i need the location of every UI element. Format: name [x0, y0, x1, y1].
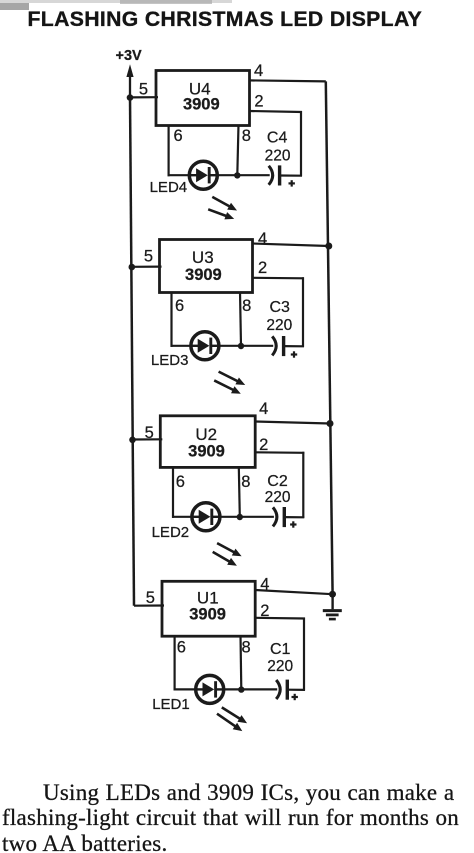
- svg-text:+3V: +3V: [116, 48, 143, 64]
- wire pin 4 U4 to right rail: [250, 80, 326, 81]
- node junction pin 8 / LED1 / C1: [238, 686, 244, 692]
- pin number 5 (U1): [146, 589, 155, 607]
- node junction pin 8 / LED4 / C4: [234, 172, 240, 178]
- LED1 emission arrow 1: [222, 707, 247, 723]
- pin number 6 (U3): [175, 297, 184, 315]
- wire LED row U4 (pin6 to capacitor): [168, 174, 270, 176]
- value label 3909 (U4): [183, 95, 220, 113]
- svg-text:C4: C4: [267, 130, 288, 147]
- wire LED row U2 (pin6 to capacitor): [172, 516, 274, 518]
- wire pin 8 stub U3: [240, 292, 241, 346]
- capacitor C3 symbol (polarized): [272, 336, 283, 356]
- value 220 (C2): [265, 489, 291, 506]
- label LED2: [152, 524, 190, 541]
- label C2: [267, 473, 288, 490]
- svg-text:2: 2: [259, 436, 268, 454]
- caption paragraph: [2, 780, 474, 853]
- plus polarity mark C1: [292, 694, 298, 700]
- svg-text:6: 6: [175, 297, 184, 315]
- pin number 2 (U2): [259, 436, 268, 454]
- LED3 emission arrow 1: [219, 372, 246, 385]
- svg-text:3909: 3909: [185, 266, 222, 284]
- node junction right rail / pin 4 U2: [327, 420, 334, 427]
- wire pin 6 stub U4: [168, 125, 170, 177]
- pin number 2 (U3): [258, 259, 267, 277]
- capacitor C1 symbol (polarized): [276, 680, 287, 700]
- node junction right rail / pin 4 U3: [325, 243, 332, 250]
- ground symbol: [323, 594, 342, 619]
- label U4: [189, 79, 211, 98]
- svg-text:5: 5: [144, 248, 153, 266]
- node junction right rail / pin 4 U1: [329, 591, 336, 598]
- wire capacitor to pin-2 drop U1: [287, 689, 305, 691]
- svg-text:2: 2: [260, 602, 269, 620]
- wire pin 6 stub U2: [172, 466, 174, 518]
- wire capacitor to pin-2 drop U3: [284, 345, 304, 347]
- wire right rail (pin-4 bus): [326, 81, 333, 594]
- wire pin 8 stub U2: [239, 466, 240, 516]
- power +3V arrow: [126, 64, 133, 97]
- LED2 emission arrow 1: [217, 543, 242, 556]
- svg-text:8: 8: [242, 297, 251, 315]
- wire LED row U1 (pin6 to capacitor): [174, 688, 278, 690]
- pin number 2 (U1): [260, 602, 269, 620]
- label U2: [195, 425, 217, 444]
- svg-text:C1: C1: [270, 641, 291, 658]
- wire pin 4 U1 to right rail: [255, 590, 332, 594]
- svg-text:220: 220: [266, 317, 292, 334]
- node junction left rail / pin 5 U2: [129, 437, 136, 444]
- svg-text:U3: U3: [192, 248, 214, 267]
- node junction left rail / pin 5 U4: [127, 94, 134, 101]
- svg-text:4: 4: [260, 576, 269, 594]
- svg-text:2: 2: [254, 92, 263, 110]
- capacitor C2 symbol (polarized): [273, 507, 284, 527]
- node junction pin 8 / LED3 / C3: [238, 343, 244, 349]
- svg-text:4: 4: [254, 62, 263, 80]
- svg-text:5: 5: [139, 80, 148, 98]
- svg-text:220: 220: [265, 489, 291, 506]
- scan smudge top-left corner block: [0, 3, 29, 10]
- svg-text:4: 4: [258, 230, 267, 248]
- pin number 8 (U3): [242, 297, 251, 315]
- svg-text:6: 6: [177, 639, 186, 657]
- capacitor C4 symbol (polarized): [269, 165, 280, 185]
- pin number 6 (U2): [176, 473, 185, 491]
- LED3 emission arrow 2: [214, 380, 241, 393]
- value 220 (C4): [265, 148, 291, 165]
- svg-text:C2: C2: [267, 473, 288, 490]
- svg-text:5: 5: [146, 589, 155, 607]
- pin number 5 (U3): [144, 248, 153, 266]
- wire pin 2 U2: [255, 452, 304, 518]
- value label 3909 (U1): [189, 606, 226, 624]
- wire left supply rail: [130, 97, 134, 606]
- wire pin 8 stub U1: [239, 635, 242, 689]
- wire capacitor to pin-2 drop U2: [284, 516, 304, 518]
- svg-text:2: 2: [258, 259, 267, 277]
- LED1 diode symbol: [196, 675, 224, 703]
- wire pin 2 U1: [255, 618, 305, 691]
- svg-text:8: 8: [241, 473, 250, 491]
- LED4 emission arrow 2: [208, 209, 234, 219]
- svg-text:U1: U1: [197, 588, 219, 607]
- pin number 8 (U2): [241, 473, 250, 491]
- op-IC U4 (LM3909) body: [156, 71, 250, 126]
- title: FLASHING CHRISTMAS LED DISPLAY: [28, 8, 423, 32]
- svg-text:LED4: LED4: [150, 179, 188, 196]
- svg-text:3909: 3909: [183, 95, 220, 113]
- pin number 4 (U2): [259, 400, 268, 418]
- svg-text:5: 5: [145, 424, 154, 442]
- scan smudge top center dark: [120, 0, 212, 4]
- wire pin 5 U4: [130, 96, 158, 98]
- pin number 2 (U4): [254, 92, 263, 110]
- LED1 emission arrow 2: [217, 714, 242, 731]
- wire pin 6 stub U1: [174, 635, 176, 690]
- svg-text:6: 6: [174, 127, 183, 145]
- label U3: [192, 248, 214, 267]
- label C4: [267, 130, 288, 147]
- wire LED row U3 (pin6 to capacitor): [171, 345, 274, 347]
- label U1: [197, 588, 219, 607]
- wire pin 6 stub U3: [170, 292, 172, 347]
- svg-text:8: 8: [242, 639, 251, 657]
- LED2 diode symbol: [192, 503, 220, 531]
- pin number 4 (U3): [258, 230, 267, 248]
- pin number 4 (U1): [260, 576, 269, 594]
- svg-text:8: 8: [242, 127, 251, 145]
- plus polarity mark C2: [290, 521, 296, 527]
- wire pin 5 U1: [134, 604, 164, 606]
- node junction left rail / pin 5 U3: [129, 264, 136, 271]
- value 220 (C1): [267, 658, 293, 675]
- wire pin 4 U3 to right rail: [253, 244, 329, 247]
- wire pin 5 U2: [133, 438, 163, 440]
- svg-text:3909: 3909: [189, 606, 226, 624]
- wire pin 4 U2 to right rail: [255, 422, 330, 424]
- wire pin 2 U4: [250, 111, 303, 176]
- label LED4: [150, 179, 188, 196]
- value label 3909 (U2): [188, 442, 225, 460]
- wire pin 5 U3: [132, 266, 162, 268]
- svg-text:LED3: LED3: [151, 352, 189, 369]
- pin number 6 (U4): [174, 127, 183, 145]
- LED4 emission arrow 1: [212, 197, 237, 211]
- plus polarity mark C3: [291, 351, 297, 357]
- op-IC U3 (LM3909) body: [160, 240, 253, 293]
- label LED1: [152, 696, 190, 713]
- label C3: [270, 299, 291, 316]
- pin number 8 (U4): [242, 127, 251, 145]
- LED2 emission arrow 2: [213, 552, 237, 566]
- svg-text:U2: U2: [195, 425, 217, 444]
- svg-text:220: 220: [265, 148, 291, 165]
- svg-text:C3: C3: [270, 299, 291, 316]
- LED3 diode symbol: [191, 332, 219, 360]
- wire capacitor to pin-2 drop U4: [280, 174, 302, 176]
- plus polarity mark C4: [289, 180, 295, 186]
- scan smudge top edge: [0, 0, 232, 3]
- op-IC U1 (LM3909) body: [162, 581, 255, 636]
- value label 3909 (U3): [185, 266, 222, 284]
- value 220 (C3): [266, 317, 292, 334]
- pin number 6 (U1): [177, 639, 186, 657]
- svg-text:LED1: LED1: [152, 696, 190, 713]
- power +3V label: [116, 48, 143, 64]
- svg-text:220: 220: [267, 658, 293, 675]
- svg-text:LED2: LED2: [152, 524, 190, 541]
- pin number 4 (U4): [254, 62, 263, 80]
- pin number 8 (U1): [242, 639, 251, 657]
- wire pin 2 U3: [253, 277, 305, 347]
- node junction pin 8 / LED2 / C2: [237, 514, 243, 520]
- op-IC U2 (LM3909) body: [160, 416, 255, 468]
- pin number 5 (U2): [145, 424, 154, 442]
- svg-text:4: 4: [259, 400, 268, 418]
- svg-text:3909: 3909: [188, 442, 225, 460]
- wire pin 8 stub U4: [237, 125, 238, 176]
- label C1: [270, 641, 291, 658]
- LED4 diode symbol: [189, 161, 217, 189]
- svg-text:6: 6: [176, 473, 185, 491]
- pin number 5 (U4): [139, 80, 148, 98]
- label LED3: [151, 352, 189, 369]
